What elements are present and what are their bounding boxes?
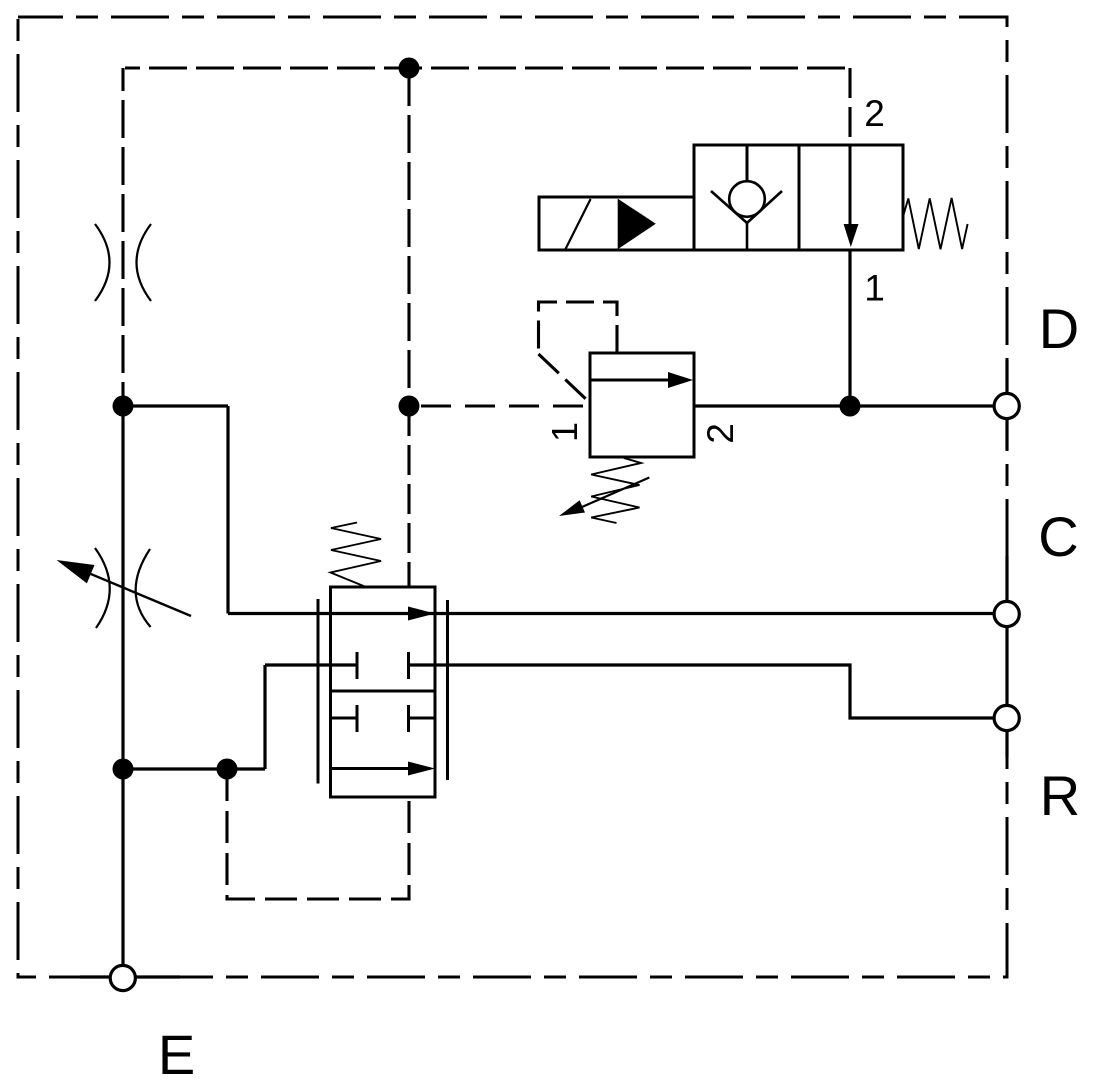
- svg-text:R: R: [1040, 764, 1080, 827]
- svg-text:1: 1: [864, 268, 885, 309]
- svg-text:1: 1: [544, 422, 585, 442]
- svg-text:D: D: [1039, 297, 1079, 360]
- svg-text:2: 2: [700, 423, 741, 444]
- svg-text:E: E: [158, 1023, 195, 1086]
- svg-text:2: 2: [864, 93, 885, 134]
- svg-text:C: C: [1038, 505, 1078, 568]
